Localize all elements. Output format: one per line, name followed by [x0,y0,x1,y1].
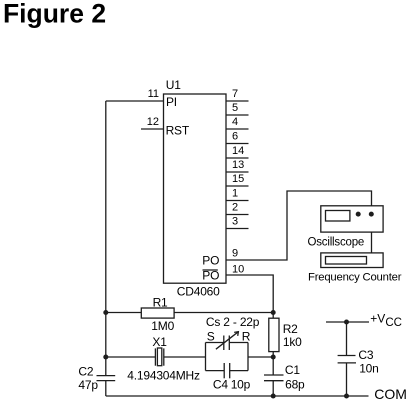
svg-text:C1: C1 [285,363,300,377]
svg-text:10n: 10n [359,361,378,375]
svg-text:PI: PI [166,95,177,109]
wire pin9 to oscilloscope [226,191,372,260]
junction dot left R1 [103,310,108,315]
junction dot left X1 [103,355,108,360]
pin 12 stub [141,128,164,130]
svg-text:COM: COM [374,386,407,402]
svg-text:1k0: 1k0 [283,335,302,349]
wire C3 top [346,322,348,356]
pin 5 stub [226,114,249,116]
wire +VCC rail [326,321,369,323]
svg-text:4.194304MHz: 4.194304MHz [127,369,200,383]
capacitor C4 bottom branch left wire [206,370,225,372]
trimmer Cs top branch left wire [206,342,224,344]
wire C2 bottom [105,381,107,396]
wire R2 bottom [272,352,274,375]
resistor R1 [141,308,174,318]
svg-text:15: 15 [232,173,244,185]
frequency counter box [321,253,383,268]
svg-text:12: 12 [147,116,159,128]
svg-text:C4: C4 [213,377,228,391]
svg-text:C2: C2 [78,364,93,378]
junction dot R2 bottom [271,355,276,360]
svg-text:+VCC: +VCC [370,312,402,330]
svg-text:Frequency Counter: Frequency Counter [308,272,402,284]
pin 7 stub [226,100,249,102]
svg-text:S: S [207,330,215,344]
pin 4 stub [226,128,249,130]
capacitor C4 plates [223,363,225,378]
svg-text:7: 7 [232,88,238,100]
wire X1 row right [164,356,206,358]
svg-text:CD4060: CD4060 [177,284,220,298]
oscilloscope knob 1 [356,212,361,217]
capacitor C4 bottom branch right wire [230,370,248,372]
wire pin10 down to R2 [226,275,273,318]
wire oscilloscope to counter [371,232,373,253]
svg-text:5: 5 [232,102,238,114]
svg-text:R2: R2 [283,322,298,336]
svg-text:10p: 10p [231,377,251,391]
svg-text:Cs 2 - 22p: Cs 2 - 22p [206,315,260,329]
pin 15 stub [226,185,249,187]
svg-text:10: 10 [232,264,244,276]
capacitor C3 plates [338,355,356,357]
overline of PO-bar [203,269,218,271]
trimmer group outline right vertical [247,343,249,371]
junction dot VCC C3 [344,320,349,325]
pin 2 stub [226,214,249,216]
wire X1 row left [106,356,156,358]
svg-text:13: 13 [232,159,244,171]
svg-text:C3: C3 [358,348,373,362]
svg-text:Oscillscope: Oscillscope [308,236,365,248]
pin 3 stub [226,228,249,230]
trimmer group outline left vertical [205,343,207,371]
wire group right to R2 node [248,356,273,358]
pin 14 stub [226,157,249,159]
svg-text:9: 9 [232,248,238,260]
trimmer Cs plates [223,336,225,351]
frequency counter display [326,257,367,265]
svg-text:R1: R1 [153,296,168,310]
wire R1 row left [106,312,142,314]
crystal X1 [154,348,156,365]
pin 11 wire [106,100,164,102]
resistor R2 [269,318,279,351]
svg-text:11: 11 [148,88,159,100]
svg-text:1: 1 [232,188,238,200]
svg-text:47p: 47p [78,378,98,392]
pin 1 stub [226,200,249,202]
oscilloscope box [321,206,383,232]
svg-text:4: 4 [232,116,238,128]
capacitor C2 plates [97,375,116,377]
svg-text:RST: RST [166,123,190,137]
oscilloscope knob 2 [369,212,374,217]
svg-text:3: 3 [232,216,238,228]
oscilloscope screen [326,211,350,222]
svg-text:1M0: 1M0 [151,319,174,333]
pin 13 stub [226,171,249,173]
junction dot pin10 R1 R2 [271,310,276,315]
svg-text:Figure 2: Figure 2 [3,0,106,29]
junction dot C1 COM [271,394,276,399]
svg-text:R: R [242,330,251,344]
svg-text:PO: PO [202,253,219,267]
svg-text:6: 6 [232,131,238,143]
svg-text:68p: 68p [285,378,305,392]
IC U1 CD4060 body [164,94,227,283]
junction dot C3 COM [344,394,349,399]
trimmer Cs arrow [216,332,239,350]
wire C3 bottom [346,363,348,396]
trimmer Cs top branch right wire [229,342,248,344]
svg-text:X1: X1 [152,335,167,349]
capacitor C1 plates [264,374,284,376]
wire R1 row right [174,312,273,314]
wire left vertical from pin11 [105,101,107,376]
wire COM rail [106,395,369,397]
svg-text:U1: U1 [166,78,181,92]
svg-text:2: 2 [232,202,238,214]
wire C1 bottom [272,381,274,396]
svg-text:14: 14 [232,145,244,157]
pin 6 stub [226,143,249,145]
